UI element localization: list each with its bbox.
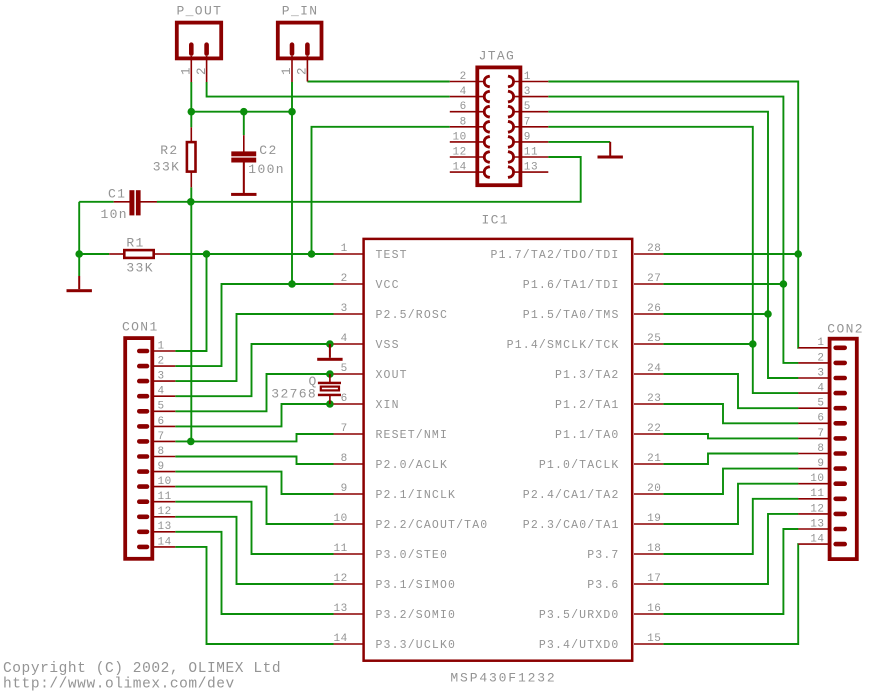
- JTAG pin 5: [509, 101, 548, 117]
- svg-text:5: 5: [158, 401, 165, 413]
- svg-text:6: 6: [341, 393, 348, 405]
- svg-text:3: 3: [341, 303, 348, 315]
- svg-text:4: 4: [817, 383, 824, 395]
- CON2 pin 10: [798, 473, 847, 486]
- svg-text:12: 12: [333, 573, 347, 585]
- CON1 pin 14: [137, 536, 175, 549]
- svg-text:1: 1: [524, 71, 531, 83]
- wire JTAG pin3 to CON2 pin2: [548, 97, 798, 363]
- svg-text:10: 10: [158, 476, 172, 488]
- wire XOUT row to CON1 pin5: [175, 374, 333, 411]
- svg-text:2: 2: [817, 352, 824, 364]
- svg-text:10: 10: [452, 131, 466, 143]
- wire RST net C1 right to JTAG pin11: [157, 157, 581, 202]
- wire RESET row to CON1 pin7: [175, 434, 333, 441]
- svg-text:4: 4: [460, 86, 467, 98]
- svg-text:4: 4: [158, 386, 165, 398]
- svg-text:6: 6: [158, 416, 165, 428]
- wire IC pin23 to CON2 pin6: [663, 404, 798, 423]
- svg-text:14: 14: [158, 536, 172, 548]
- svg-text:13: 13: [158, 521, 172, 533]
- CON2 pin 2: [798, 352, 847, 365]
- junction node VCC at P_IN: [288, 108, 296, 116]
- wire IC pin18 to CON2 pin11: [663, 499, 798, 554]
- CON1 pin 12: [137, 506, 175, 519]
- wire VSS row to CON1 pin4: [175, 344, 333, 396]
- IC1 pin 2 VCC: [334, 273, 400, 292]
- IC1 pin 17 P3.6: [587, 573, 663, 592]
- wire IC pin25 row: [663, 343, 752, 345]
- wire IC pin24 to CON2 pin5: [663, 374, 798, 408]
- svg-text:http://www.olimex.com/dev: http://www.olimex.com/dev: [3, 676, 235, 692]
- svg-text:2: 2: [295, 67, 309, 75]
- wire JTAG pin8 to TEST row: [312, 127, 450, 254]
- JTAG pin 2: [450, 71, 489, 87]
- svg-text:2: 2: [341, 273, 348, 285]
- junction node GND at R1 left: [75, 250, 83, 258]
- svg-text:Copyright (C) 2002, OLIMEX Ltd: Copyright (C) 2002, OLIMEX Ltd: [3, 661, 281, 677]
- svg-text:C1: C1: [108, 187, 126, 202]
- junction node TDI at IC pin27: [780, 280, 788, 288]
- wire IC pin3 to CON1 pin3: [175, 314, 333, 381]
- junction node TEST at CON1.1 branch: [203, 250, 211, 258]
- wire TEST to CON1 pin1: [175, 254, 206, 351]
- svg-text:9: 9: [158, 461, 165, 473]
- svg-text:24: 24: [647, 363, 661, 375]
- IC1 pin 9 P2.1/INCLK: [334, 483, 457, 502]
- connector JTAG: [477, 49, 520, 186]
- svg-text:25: 25: [647, 333, 661, 345]
- svg-text:10: 10: [333, 513, 347, 525]
- svg-text:5: 5: [817, 398, 824, 410]
- CON1 pin 13: [137, 521, 175, 534]
- junction node VSS at IC pin4: [326, 340, 334, 348]
- svg-text:R2: R2: [160, 143, 178, 158]
- wire P_IN pin1 down to VCC row: [291, 82, 293, 284]
- svg-text:13: 13: [333, 603, 347, 615]
- JTAG pin 13: [509, 162, 548, 178]
- svg-text:13: 13: [810, 518, 824, 530]
- wire P_OUT pin1 to VCC rail: [190, 82, 192, 127]
- IC1 pin 14 P3.3/UCLK0: [333, 633, 456, 652]
- svg-text:TEST: TEST: [376, 249, 408, 262]
- svg-text:CON2: CON2: [827, 322, 864, 337]
- wire IC pin26 row: [663, 313, 768, 315]
- svg-text:P1.5/TA0/TMS: P1.5/TA0/TMS: [523, 309, 620, 322]
- wire IC pin8 to CON1 pin8: [175, 457, 333, 465]
- svg-text:11: 11: [810, 488, 824, 500]
- svg-text:P3.1/SIMO0: P3.1/SIMO0: [376, 579, 457, 592]
- svg-text:P1.6/TA1/TDI: P1.6/TA1/TDI: [523, 279, 620, 292]
- svg-text:12: 12: [452, 147, 466, 159]
- svg-text:23: 23: [647, 393, 661, 405]
- IC1 pin 25 P1.4/SMCLK/TCK: [507, 333, 664, 352]
- svg-text:1: 1: [280, 67, 294, 75]
- IC1 pin 8 P2.0/ACLK: [334, 453, 449, 472]
- connector CON2: [827, 322, 864, 560]
- svg-text:3: 3: [817, 367, 824, 379]
- svg-text:9: 9: [524, 131, 531, 143]
- svg-text:8: 8: [460, 116, 467, 128]
- ground GND at JTAG pin9: [598, 142, 623, 159]
- svg-text:P3.6: P3.6: [587, 579, 619, 592]
- CON2 pin 4: [798, 383, 847, 396]
- junction node XOUT at crystal: [326, 370, 334, 378]
- svg-text:20: 20: [647, 483, 661, 495]
- CON2 pin 7: [798, 428, 847, 441]
- JTAG pin 8: [450, 116, 489, 132]
- CON2 pin 14: [798, 534, 847, 547]
- wire XIN row to CON1 pin6: [175, 404, 333, 426]
- wire IC pin13 to CON1 pin13: [175, 532, 333, 614]
- wire RST net C1 left segment: [79, 201, 114, 203]
- JTAG pin 12: [450, 147, 489, 163]
- wire IC pin20 to CON2 pin9: [663, 469, 798, 494]
- svg-text:6: 6: [460, 101, 467, 113]
- wire IC pin9 to CON1 pin9: [175, 472, 333, 494]
- CON2 pin 12: [798, 503, 847, 516]
- svg-text:18: 18: [647, 543, 661, 555]
- wire IC pin22 to CON2 pin7: [663, 434, 798, 438]
- resistor R2: [153, 127, 196, 187]
- svg-text:1: 1: [179, 67, 193, 75]
- IC1 pin 28 P1.7/TA2/TDO/TDI: [491, 243, 664, 262]
- svg-text:8: 8: [158, 446, 165, 458]
- junction node TCK at IC pin25: [749, 340, 757, 348]
- svg-text:33K: 33K: [153, 159, 180, 174]
- svg-text:4: 4: [341, 333, 348, 345]
- svg-text:11: 11: [158, 491, 172, 503]
- svg-text:8: 8: [817, 443, 824, 455]
- svg-text:P2.2/CAOUT/TA0: P2.2/CAOUT/TA0: [376, 519, 489, 532]
- IC1 pin 6 XIN: [334, 393, 400, 412]
- IC1 pin 1 TEST: [334, 243, 408, 262]
- svg-text:C2: C2: [259, 143, 277, 158]
- svg-text:16: 16: [647, 603, 661, 615]
- svg-text:3: 3: [524, 86, 531, 98]
- svg-text:P3.5/URXD0: P3.5/URXD0: [539, 609, 620, 622]
- JTAG pin 10: [450, 131, 489, 147]
- JTAG pin 9: [509, 131, 548, 147]
- wire P_OUT pin2 to JTAG pin4: [207, 82, 450, 97]
- svg-text:7: 7: [524, 116, 531, 128]
- svg-text:1: 1: [341, 243, 348, 255]
- svg-text:P_OUT: P_OUT: [177, 4, 223, 19]
- svg-text:2: 2: [460, 71, 467, 83]
- wire C1 left down to R1 row: [78, 202, 80, 254]
- IC1 pin 20 P2.4/CA1/TA2: [523, 483, 664, 502]
- svg-text:19: 19: [647, 513, 661, 525]
- svg-text:15: 15: [647, 633, 661, 645]
- svg-text:28: 28: [647, 243, 661, 255]
- ground GND left of R1: [67, 254, 92, 292]
- svg-text:9: 9: [341, 483, 348, 495]
- svg-text:P1.4/SMCLK/TCK: P1.4/SMCLK/TCK: [507, 339, 620, 352]
- CON1 pin 1: [137, 340, 175, 353]
- wire JTAG pin7 to CON2 pin4: [548, 127, 798, 393]
- IC1 pin 12 P3.1/SIMO0: [333, 573, 456, 592]
- svg-text:P3.0/STE0: P3.0/STE0: [376, 549, 449, 562]
- svg-text:MSP430F1232: MSP430F1232: [450, 671, 556, 686]
- svg-text:14: 14: [452, 162, 466, 174]
- CON2 pin 6: [798, 413, 847, 426]
- svg-text:VCC: VCC: [376, 279, 400, 292]
- wire JTAG pin5 to CON2 pin3: [548, 112, 798, 378]
- svg-text:9: 9: [817, 458, 824, 470]
- svg-text:7: 7: [158, 431, 165, 443]
- IC IC1 MSP430F1232: [364, 213, 633, 686]
- junction node TDOTDI at IC pin28: [794, 250, 802, 258]
- IC1 pin 10 P2.2/CAOUT/TA0: [333, 513, 488, 532]
- IC1 pin 16 P3.5/URXD0: [539, 603, 664, 622]
- svg-text:2: 2: [158, 356, 165, 368]
- svg-text:12: 12: [158, 506, 172, 518]
- svg-text:27: 27: [647, 273, 661, 285]
- svg-text:7: 7: [817, 428, 824, 440]
- svg-text:13: 13: [524, 162, 538, 174]
- svg-text:1: 1: [158, 340, 165, 352]
- svg-text:P3.3/UCLK0: P3.3/UCLK0: [376, 639, 457, 652]
- svg-text:2: 2: [195, 67, 209, 75]
- wire JTAG pin9 to ground: [548, 141, 610, 143]
- svg-text:33K: 33K: [126, 260, 153, 275]
- wire R1 right TEST row: [170, 253, 334, 255]
- wire IC pin15 to CON2 pin14: [663, 544, 798, 644]
- connector P_IN: [278, 4, 322, 83]
- IC1 pin 27 P1.6/TA1/TDI: [523, 273, 664, 292]
- ground GND at IC VSS: [317, 344, 342, 361]
- CON2 pin 1: [798, 337, 847, 350]
- svg-text:VSS: VSS: [376, 339, 400, 352]
- svg-text:CON1: CON1: [122, 320, 159, 335]
- wire IC pin12 to CON1 pin12: [175, 517, 333, 584]
- IC1 pin 7 RESET/NMI: [334, 423, 449, 442]
- CON1 pin 4: [137, 386, 175, 399]
- wire IC pin28 row: [663, 253, 798, 255]
- capacitor C2: [231, 135, 285, 193]
- IC1 pin 3 P2.5/ROSC: [334, 303, 449, 322]
- svg-text:5: 5: [524, 101, 531, 113]
- wire IC pin19 to CON2 pin10: [663, 484, 798, 524]
- CON1 pin 2: [137, 356, 175, 369]
- svg-text:12: 12: [810, 503, 824, 515]
- wire P_IN pin2 to JTAG pin2: [307, 81, 449, 83]
- CON1 pin 10: [137, 476, 175, 489]
- IC1 pin 4 VSS: [334, 333, 400, 352]
- svg-text:14: 14: [810, 534, 824, 546]
- svg-text:8: 8: [341, 453, 348, 465]
- svg-text:10n: 10n: [101, 207, 128, 222]
- IC1 pin 5 XOUT: [334, 363, 408, 382]
- junction node XIN at crystal: [326, 400, 334, 408]
- wire IC pin21 to CON2 pin8: [663, 454, 798, 465]
- crystal Q 32768: [271, 374, 341, 404]
- CON2 pin 5: [798, 398, 847, 411]
- resistor R1: [109, 236, 170, 276]
- connector P_OUT: [177, 4, 223, 83]
- svg-text:R1: R1: [126, 236, 144, 251]
- wire IC pin27 row: [663, 283, 783, 285]
- svg-text:1: 1: [817, 337, 824, 349]
- svg-text:11: 11: [333, 543, 347, 555]
- IC1 pin 23 P1.2/TA1: [555, 393, 663, 412]
- IC1 pin 22 P1.1/TA0: [555, 423, 663, 442]
- svg-text:P1.7/TA2/TDO/TDI: P1.7/TA2/TDO/TDI: [491, 249, 620, 262]
- CON1 pin 3: [137, 371, 175, 384]
- wire R1 left to ground node: [79, 253, 109, 255]
- wire IC pin10 to CON1 pin10: [175, 487, 333, 524]
- CON2 pin 8: [798, 443, 847, 456]
- capacitor C1: [101, 187, 157, 223]
- CON2 pin 3: [798, 367, 847, 380]
- IC1 pin 24 P1.3/TA2: [555, 363, 663, 382]
- wire JTAG pin1 to CON2 pin1: [548, 82, 798, 348]
- svg-text:3: 3: [158, 371, 165, 383]
- wire VCC row to CON1 pin2: [175, 284, 333, 366]
- svg-text:P2.5/ROSC: P2.5/ROSC: [376, 309, 449, 322]
- svg-text:P1.1/TA0: P1.1/TA0: [555, 429, 620, 442]
- junction node VCC at C2: [240, 108, 248, 116]
- wire R2 bottom segment: [190, 187, 192, 202]
- wire IC pin11 to CON1 pin11: [175, 502, 333, 554]
- JTAG pin 6: [450, 101, 489, 117]
- svg-text:XOUT: XOUT: [376, 369, 408, 382]
- JTAG pin 1: [509, 71, 548, 87]
- IC1 pin 26 P1.5/TA0/TMS: [523, 303, 664, 322]
- connector CON1: [122, 320, 159, 559]
- svg-text:P3.2/SOMI0: P3.2/SOMI0: [376, 609, 457, 622]
- svg-text:21: 21: [647, 453, 661, 465]
- svg-text:P2.4/CA1/TA2: P2.4/CA1/TA2: [523, 489, 620, 502]
- svg-text:100n: 100n: [248, 162, 285, 177]
- svg-text:P2.1/INCLK: P2.1/INCLK: [376, 489, 457, 502]
- svg-text:P2.3/CA0/TA1: P2.3/CA0/TA1: [523, 519, 620, 532]
- junction node VCC at IC pin2: [288, 280, 296, 288]
- IC1 pin 15 P3.4/UTXD0: [539, 633, 664, 652]
- copyright text: [3, 661, 281, 693]
- svg-text:5: 5: [341, 363, 348, 375]
- svg-text:IC1: IC1: [482, 213, 509, 228]
- JTAG pin 14: [450, 162, 489, 178]
- CON1 pin 8: [137, 446, 175, 459]
- svg-text:XIN: XIN: [376, 399, 400, 412]
- svg-text:P1.2/TA1: P1.2/TA1: [555, 399, 620, 412]
- JTAG pin 11: [509, 147, 548, 163]
- svg-text:32768: 32768: [271, 386, 317, 401]
- svg-text:JTAG: JTAG: [479, 49, 516, 64]
- svg-text:7: 7: [341, 423, 348, 435]
- wire IC pin14 to CON1 pin14: [175, 547, 333, 644]
- svg-text:P1.3/TA2: P1.3/TA2: [555, 369, 620, 382]
- svg-text:RESET/NMI: RESET/NMI: [376, 429, 449, 442]
- CON2 pin 11: [798, 488, 847, 501]
- svg-text:11: 11: [524, 147, 538, 159]
- IC1 pin 18 P3.7: [587, 543, 663, 562]
- CON1 pin 7: [137, 431, 175, 444]
- junction node VCC at P_OUT: [188, 108, 196, 116]
- CON1 pin 11: [137, 491, 175, 504]
- junction node TMS at IC pin26: [764, 310, 772, 318]
- junction node RST at CON1 pin7: [187, 438, 195, 446]
- svg-text:17: 17: [647, 573, 661, 585]
- svg-text:14: 14: [333, 633, 347, 645]
- svg-text:P_IN: P_IN: [282, 4, 319, 19]
- svg-text:26: 26: [647, 303, 661, 315]
- junction node RST at R2/C1: [187, 198, 195, 206]
- CON1 pin 9: [137, 461, 175, 474]
- junction node TEST at JTAG.8 branch: [308, 250, 316, 258]
- svg-text:P1.0/TACLK: P1.0/TACLK: [539, 459, 620, 472]
- svg-text:P2.0/ACLK: P2.0/ACLK: [376, 459, 449, 472]
- CON2 pin 13: [798, 518, 847, 531]
- svg-text:6: 6: [817, 413, 824, 425]
- wire IC pin17 to CON2 pin12: [663, 514, 798, 584]
- ground GND below C2: [231, 162, 256, 196]
- CON2 pin 9: [798, 458, 847, 471]
- svg-text:P3.7: P3.7: [587, 549, 619, 562]
- wire IC pin16 to CON2 pin13: [663, 529, 798, 614]
- svg-text:10: 10: [810, 473, 824, 485]
- svg-text:P3.4/UTXD0: P3.4/UTXD0: [539, 639, 620, 652]
- wire RST vertical to CON1 pin7: [190, 202, 192, 442]
- CON1 pin 6: [137, 416, 175, 429]
- CON1 pin 5: [137, 401, 175, 414]
- wire C2 top drop: [243, 112, 245, 136]
- JTAG pin 3: [509, 86, 548, 102]
- IC1 pin 19 P2.3/CA0/TA1: [523, 513, 664, 532]
- wire VCC rail: [191, 111, 292, 113]
- JTAG pin 4: [450, 86, 489, 102]
- svg-text:22: 22: [647, 423, 661, 435]
- IC1 pin 11 P3.0/STE0: [333, 543, 448, 562]
- JTAG pin 7: [509, 116, 548, 132]
- IC1 pin 13 P3.2/SOMI0: [333, 603, 456, 622]
- IC1 pin 21 P1.0/TACLK: [539, 453, 664, 472]
